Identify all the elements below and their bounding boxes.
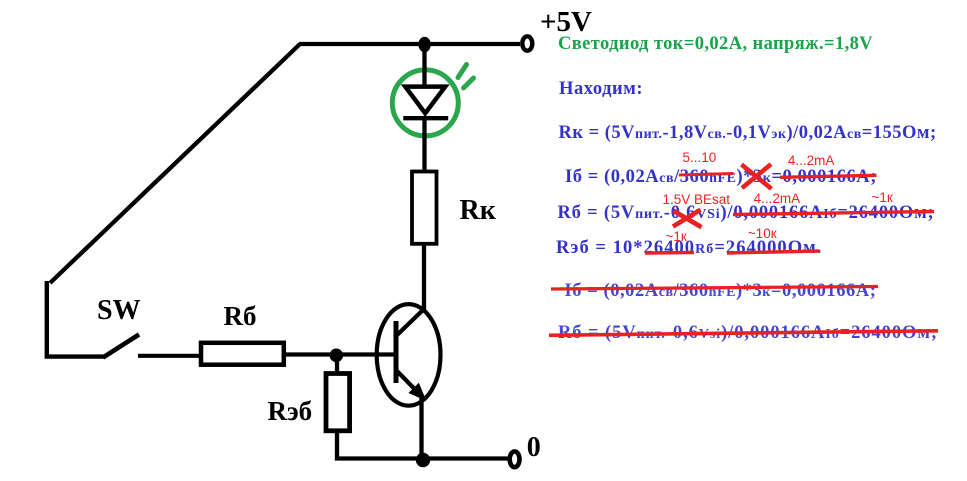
formula Reb value	[556, 239, 823, 258]
wire diagonal from +5V rail down to switch column	[50, 44, 300, 283]
annotation ~1k right	[872, 191, 893, 205]
transistor Q1 emitter arrowhead	[410, 384, 425, 399]
resistor Rb body	[201, 343, 284, 365]
transistor Q1 emitter diagonal	[396, 370, 419, 394]
LED D1 light ray upper	[458, 65, 467, 78]
node junction +5V rail	[418, 37, 430, 52]
strike on 264000Om	[727, 251, 820, 253]
label 0	[527, 434, 541, 462]
label +5V	[540, 8, 592, 37]
LED D1 anode triangle	[405, 87, 445, 114]
annotation ~10k	[748, 227, 777, 241]
formula Ib value (first)	[565, 168, 877, 187]
label Rb	[224, 303, 257, 330]
formula Ib value (second, struck)	[565, 282, 877, 301]
resistor Rk body	[412, 172, 437, 244]
wire +5V rail to LED	[422, 44, 426, 88]
cross X over *3k stroke 2	[742, 165, 772, 189]
cross X over 0,6 stroke 1	[673, 210, 701, 227]
strike on Ib line second	[551, 287, 878, 290]
label Rk	[460, 197, 496, 225]
cross X over 0,6 stroke 2	[674, 211, 702, 227]
transistor Q1 body circle	[377, 304, 441, 406]
formula Rb value (first)	[558, 204, 935, 223]
annotation 4...2mA upper	[788, 154, 835, 168]
annotation ~1k below	[666, 230, 687, 244]
wire emitter vertical	[419, 395, 423, 459]
wire left vertical	[47, 281, 104, 357]
switch SW blade	[103, 335, 139, 358]
strike on 360	[679, 174, 734, 176]
annotation 4...2mA lower	[754, 192, 801, 206]
LED D1 cathode bar	[403, 116, 448, 120]
node junction at base	[330, 349, 344, 363]
strike on 26400	[645, 251, 694, 255]
strike on 0,000166AIb=26400Om	[733, 212, 934, 215]
strike on 0,000166A first	[780, 175, 877, 177]
terminal +5V ring	[522, 36, 532, 50]
annotation 5...10	[683, 151, 717, 165]
wire LED to Rk	[422, 117, 426, 172]
terminal 0 ring	[510, 451, 520, 467]
wire switch fixed contact to Rb	[138, 354, 202, 358]
strike on Rb line second	[549, 331, 938, 336]
wire top horizontal +5V rail	[299, 42, 520, 46]
wire Rb to transistor base	[285, 352, 396, 356]
note heading Nahodim	[559, 80, 643, 99]
LED D1 light ray lower	[464, 78, 474, 88]
note LED parameters green	[558, 35, 873, 54]
transistor Q1 base bar	[394, 321, 399, 383]
resistor Reb body	[326, 374, 350, 431]
node junction emitter-bottom	[416, 453, 430, 467]
LED D1 circle	[392, 70, 458, 136]
label Reb	[268, 398, 313, 425]
wire collector vertical	[422, 242, 426, 311]
wire Reb down and bottom rail to terminal	[337, 431, 509, 459]
annotation 1.5V BEsat	[663, 193, 731, 207]
transistor Q1 collector diagonal	[396, 309, 424, 336]
wire junction down to Reb	[335, 355, 339, 375]
cross X over *3k stroke 1	[742, 164, 771, 188]
formula Rk value	[559, 124, 937, 143]
label SW	[97, 297, 141, 325]
formula Rb value (second, struck)	[558, 324, 938, 343]
